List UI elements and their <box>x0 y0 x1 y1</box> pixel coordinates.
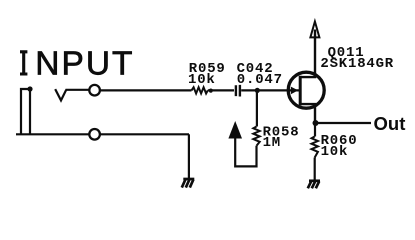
drain lead <box>300 30 315 78</box>
svg-text:10k: 10k <box>321 144 349 160</box>
source lead <box>300 104 315 123</box>
bias arrow (filled) <box>228 121 242 139</box>
supply arrow (open) <box>310 22 319 38</box>
wire R058 bottom to bias arrow <box>235 138 256 166</box>
ground (left) <box>182 179 195 188</box>
node at jack top-right <box>27 86 32 91</box>
resistor R060 zigzag <box>312 137 318 158</box>
svg-text:2SK184GR: 2SK184GR <box>320 56 394 72</box>
wire tip contact to terminal <box>66 89 91 91</box>
terminal circle (tip contact) <box>89 85 100 96</box>
svg-text:Out: Out <box>374 113 406 134</box>
junction node gate/R058 <box>255 88 260 93</box>
svg-text:10k: 10k <box>188 72 216 88</box>
svg-text:0.047: 0.047 <box>237 72 283 88</box>
resistor R058 zigzag <box>253 127 259 146</box>
wire C042 to gate <box>241 89 299 91</box>
transistor Q011 circle <box>288 72 324 108</box>
ground (right) <box>308 181 320 189</box>
terminal circle (sleeve contact) <box>89 129 100 140</box>
channel bar <box>299 76 302 106</box>
wire sleeve down to ground <box>188 134 190 179</box>
jack tip contact (V) <box>55 89 66 100</box>
gate arrow <box>291 87 298 95</box>
wire source to R060 <box>314 123 316 137</box>
capacitor C042 plates <box>236 85 240 97</box>
solder blob after R059 <box>209 89 213 93</box>
svg-text:1M: 1M <box>263 135 281 151</box>
INPUT label letter I <box>20 52 27 74</box>
wire sleeve line <box>16 133 189 135</box>
wire to Out <box>316 122 372 124</box>
svg-text:NPUT: NPUT <box>35 46 134 83</box>
resistor R059 zigzag <box>192 87 208 93</box>
jack J input plug body <box>21 89 30 134</box>
wire junction to R058 <box>256 90 258 126</box>
wire R059 to C042 <box>208 89 234 91</box>
wire terminal to R059 <box>100 89 192 91</box>
wire R060 to ground <box>314 158 316 181</box>
junction node source <box>313 120 319 126</box>
